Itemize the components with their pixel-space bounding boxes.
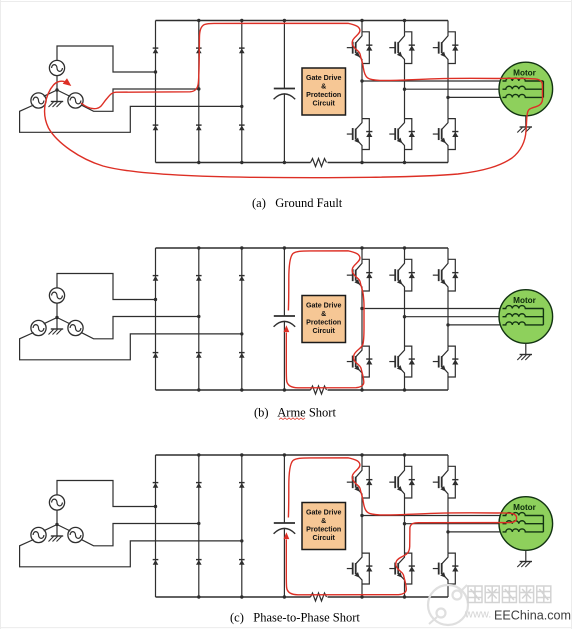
red arrowhead at source ground (a)	[63, 78, 72, 86]
wire motor to ground (b)	[525, 343, 527, 354]
svg-text:Protection: Protection	[306, 91, 341, 99]
rectifier leg 1 wire (b)	[155, 248, 157, 390]
diode D4 bottom (a)	[153, 125, 159, 130]
diode D6 bottom (c)	[239, 560, 245, 565]
diode D3 top (c)	[239, 483, 245, 488]
junction dots on rails (a)	[197, 19, 406, 164]
IGBT Q2 top with diode (a)	[389, 32, 415, 64]
AC source top (c)	[49, 495, 64, 510]
motor M1 (c)	[499, 497, 553, 551]
diode D1 top (c)	[153, 483, 159, 488]
inverter leg 2 wire (b)	[404, 248, 406, 390]
svg-text:Gate Drive: Gate Drive	[306, 74, 342, 82]
junction phase input 1 (c)	[154, 505, 157, 508]
capacitor C1 DC link (a)	[274, 21, 296, 163]
resistor R1 brake (a)	[311, 159, 327, 167]
IGBT Q3 top with diode (b)	[433, 259, 459, 291]
junction phase output 3 (a)	[446, 96, 449, 99]
inverter leg 3 wire (c)	[447, 455, 449, 597]
svg-text:Gate Drive: Gate Drive	[306, 301, 342, 309]
junction dots on rails (b)	[197, 246, 406, 391]
svg-text:Gate Drive: Gate Drive	[306, 508, 342, 516]
AC source left (c)	[31, 527, 46, 542]
wire DC- bottom rail (a)	[156, 162, 449, 164]
ground at source star (c)	[49, 536, 64, 542]
junction phase input 3 (c)	[240, 539, 243, 542]
wire DC+ top rail (b)	[156, 247, 449, 249]
watermark logo circle	[428, 585, 468, 625]
svg-text:(b) Arme Short: (b) Arme Short	[254, 406, 336, 420]
ground at motor (a)	[517, 127, 532, 133]
inverter leg 3 wire (b)	[447, 248, 449, 390]
wire phase B from right source (a)	[81, 89, 199, 111]
AC source left (a)	[31, 93, 46, 108]
IGBT Q4 bottom with diode (b)	[347, 346, 373, 377]
red fault path arm short (b)	[286, 251, 364, 388]
IGBT Q4 bottom with diode (a)	[347, 119, 373, 150]
wire phase C from left source (c)	[20, 540, 242, 567]
IGBT Q6 bottom with diode (a)	[433, 119, 459, 150]
capacitor C1 DC link (b)	[274, 248, 296, 390]
node star point (c)	[44, 510, 71, 537]
diode D5 bottom (a)	[196, 125, 202, 130]
junction phase input 3 (a)	[240, 105, 243, 108]
rectifier leg 3 wire (c)	[241, 455, 243, 597]
red arrowhead at capacitor (c)	[284, 532, 290, 539]
junction phase output 2 (a)	[403, 88, 406, 91]
wire phase C from left source (a)	[20, 105, 242, 132]
gate drive and protection circuit box U1 (a)	[302, 68, 346, 115]
ground at motor (b)	[517, 355, 532, 361]
watermark chinese text 电子发烧友	[468, 586, 551, 603]
junction dots on rails (c)	[197, 453, 406, 598]
wire DC- bottom rail (b)	[156, 389, 449, 391]
IGBT Q1 top with diode (b)	[347, 259, 373, 291]
diagram (c) Phase-to-Phase Short	[20, 453, 553, 601]
junction phase output 2 (c)	[403, 522, 406, 525]
junction phase output 1 (a)	[360, 79, 363, 82]
svg-text:Protection: Protection	[306, 525, 341, 533]
rectifier leg 1 wire (a)	[155, 21, 157, 163]
IGBT Q6 bottom with diode (b)	[433, 346, 459, 377]
diode D5 bottom (c)	[196, 560, 202, 565]
IGBT Q4 bottom with diode (c)	[347, 553, 373, 584]
wire motor to ground (c)	[525, 550, 527, 561]
resistor R1 brake (c)	[311, 593, 327, 601]
diagram (a) Ground Fault	[20, 19, 553, 178]
svg-text:Motor: Motor	[513, 503, 537, 512]
inverter leg 2 wire (c)	[404, 455, 406, 597]
IGBT Q6 bottom with diode (c)	[433, 553, 459, 584]
junction phase input 3 (b)	[240, 332, 243, 335]
inverter leg 3 wire (a)	[447, 21, 449, 163]
wire phase B from right source (b)	[81, 317, 199, 339]
AC source left (b)	[31, 320, 46, 335]
svg-text:Circuit: Circuit	[312, 534, 335, 542]
wire DC+ top rail (a)	[156, 20, 449, 22]
svg-text:EEChina.com: EEChina.com	[494, 609, 571, 623]
AC source right (c)	[68, 527, 83, 542]
svg-text:(a) Ground Fault: (a) Ground Fault	[252, 196, 343, 210]
diode D2 top (a)	[196, 48, 202, 53]
inverter leg 1 wire (b)	[361, 248, 363, 390]
IGBT Q5 bottom with diode (a)	[389, 119, 415, 150]
motor M1 (b)	[499, 290, 553, 344]
svg-text:www.: www.	[464, 609, 491, 621]
junction phase input 2 (c)	[197, 522, 200, 525]
IGBT Q3 top with diode (a)	[433, 32, 459, 64]
diode D5 bottom (b)	[196, 353, 202, 358]
junction phase output 1 (b)	[360, 307, 363, 310]
svg-text:Circuit: Circuit	[312, 99, 335, 107]
wire phase B from right source (c)	[81, 524, 199, 546]
red fault path phase-to-phase short (c)	[286, 458, 516, 595]
diode D1 top (a)	[153, 48, 159, 53]
node star point (b)	[44, 303, 71, 330]
svg-text:Circuit: Circuit	[312, 327, 335, 335]
svg-text:Protection: Protection	[306, 318, 341, 326]
wire DC+ top rail (c)	[156, 454, 449, 456]
svg-text:&: &	[321, 310, 326, 318]
junction phase output 3 (c)	[446, 530, 449, 533]
wire motor phase lines (c)	[362, 516, 506, 532]
diode D2 top (c)	[196, 483, 202, 488]
junction phase output 2 (b)	[403, 315, 406, 318]
svg-text:&: &	[321, 82, 326, 90]
IGBT Q3 top with diode (c)	[433, 466, 459, 498]
wire phase A from top source (b)	[57, 274, 156, 300]
IGBT Q5 bottom with diode (b)	[389, 346, 415, 377]
wire phase A from top source (a)	[57, 46, 156, 72]
junction phase input 1 (b)	[154, 298, 157, 301]
gate drive and protection circuit box U1 (b)	[302, 296, 346, 343]
IGBT Q5 bottom with diode (c)	[389, 553, 415, 584]
diode D2 top (b)	[196, 276, 202, 281]
node star point (a)	[44, 75, 71, 102]
ground at source star (a)	[49, 102, 64, 108]
AC source top (b)	[49, 288, 64, 303]
AC source right (a)	[68, 93, 83, 108]
junction phase input 2 (b)	[197, 315, 200, 318]
spellcheck squiggle under Arme	[279, 418, 305, 420]
diode D3 top (b)	[239, 276, 245, 281]
diode D6 bottom (a)	[239, 125, 245, 130]
rectifier leg 3 wire (b)	[241, 248, 243, 390]
rectifier leg 2 wire (a)	[198, 21, 200, 163]
ground at motor (c)	[517, 562, 532, 568]
AC source top (a)	[49, 60, 64, 75]
IGBT Q1 top with diode (a)	[347, 32, 373, 64]
svg-text:Motor: Motor	[513, 69, 537, 78]
diagram (b) Arm Short	[20, 246, 553, 394]
svg-text:Motor: Motor	[513, 296, 537, 305]
wire phase C from left source (b)	[20, 333, 242, 360]
diode D6 bottom (b)	[239, 353, 245, 358]
diode D3 top (a)	[239, 48, 245, 53]
ground at source star (b)	[49, 329, 64, 335]
inverter leg 1 wire (c)	[361, 455, 363, 597]
svg-text:(c) Phase-to-Phase Short: (c) Phase-to-Phase Short	[230, 611, 360, 625]
junction phase output 3 (b)	[446, 323, 449, 326]
IGBT Q1 top with diode (c)	[347, 466, 373, 498]
rectifier leg 3 wire (a)	[241, 21, 243, 163]
wire motor phase lines (b)	[362, 309, 506, 325]
wire DC- bottom rail (c)	[156, 596, 449, 598]
IGBT Q2 top with diode (c)	[389, 466, 415, 498]
wire motor to ground (a)	[525, 116, 527, 127]
AC source right (b)	[68, 320, 83, 335]
rectifier leg 1 wire (c)	[155, 455, 157, 597]
gate drive and protection circuit box U1 (c)	[302, 503, 346, 550]
inverter leg 1 wire (a)	[361, 21, 363, 163]
resistor R1 brake (b)	[311, 386, 327, 394]
motor M1 (a)	[499, 62, 553, 116]
red fault path ground fault (a)	[45, 23, 543, 177]
inverter leg 2 wire (a)	[404, 21, 406, 163]
rectifier leg 2 wire (b)	[198, 248, 200, 390]
capacitor C1 DC link (c)	[274, 455, 296, 597]
diode D4 bottom (b)	[153, 353, 159, 358]
IGBT Q2 top with diode (b)	[389, 259, 415, 291]
diode D4 bottom (c)	[153, 560, 159, 565]
svg-text:&: &	[321, 517, 326, 525]
diode D1 top (b)	[153, 276, 159, 281]
wire phase A from top source (c)	[57, 481, 156, 507]
junction phase output 1 (c)	[360, 514, 363, 517]
rectifier leg 2 wire (c)	[198, 455, 200, 597]
red arrowhead at capacitor (b)	[284, 325, 290, 332]
junction phase input 2 (a)	[197, 87, 200, 90]
wire motor phase lines (a)	[362, 81, 506, 97]
junction phase input 1 (a)	[154, 70, 157, 73]
